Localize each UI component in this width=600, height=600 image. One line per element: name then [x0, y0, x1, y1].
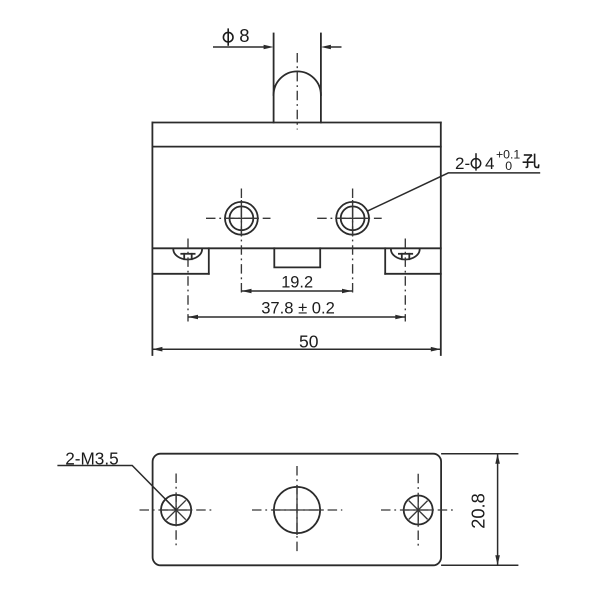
- svg-text:8: 8: [239, 25, 249, 46]
- svg-text:19.2: 19.2: [281, 274, 313, 292]
- plate outline: [153, 454, 442, 566]
- plunger centerline: [296, 53, 298, 130]
- dimension φ8 arrows: [264, 45, 274, 50]
- dimension 50: [152, 348, 440, 350]
- right hole circle (2-φ4): [336, 202, 369, 235]
- left tapped hole M3.5: [161, 495, 191, 525]
- 孔 character (drawn strokes): [523, 154, 539, 168]
- left screw centerline: [187, 239, 189, 322]
- left mounting foot: [152, 248, 208, 273]
- right hole centerlines: [352, 189, 354, 297]
- svg-text:50: 50: [299, 331, 319, 351]
- svg-text:37.8 ± 0.2: 37.8 ± 0.2: [261, 298, 335, 317]
- svg-text:20.8: 20.8: [468, 493, 489, 529]
- right foot screw head: [391, 249, 420, 259]
- center hole: [274, 487, 320, 533]
- right mounting foot: [385, 248, 441, 273]
- plunger body (sides + dome): [274, 34, 321, 123]
- svg-text:4: 4: [485, 154, 494, 173]
- dimension φ8 lines: [213, 46, 342, 48]
- left foot screw head: [173, 249, 202, 259]
- dimension 19.2: [242, 290, 353, 292]
- left hole circle (2-φ4): [225, 202, 258, 235]
- dimension 20.8: [441, 454, 518, 566]
- left hole centerlines: [240, 189, 242, 297]
- right screw centerline: [404, 239, 406, 322]
- dimension 37.8 ± 0.2: [188, 316, 405, 318]
- hole label 2-φ4 +0.1/0 孔: [455, 148, 520, 174]
- svg-text:2-: 2-: [455, 154, 470, 173]
- right tapped hole M3.5: [404, 496, 433, 525]
- dimension φ8 text: [223, 25, 249, 46]
- svg-text:0: 0: [505, 159, 512, 173]
- center bottom protrusion: [274, 248, 320, 267]
- leader line to hole label: [367, 173, 540, 211]
- switch body outline: [152, 123, 440, 356]
